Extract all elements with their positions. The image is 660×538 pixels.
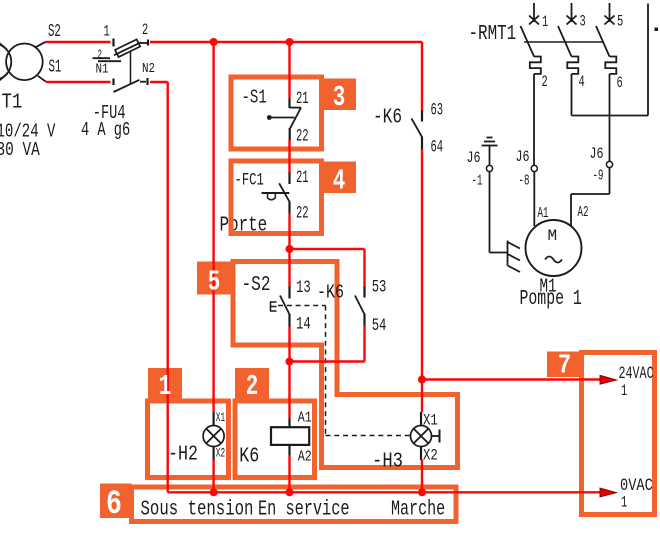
wire J6-1 to chassis bbox=[490, 252, 508, 254]
svg-text:5: 5 bbox=[617, 14, 623, 32]
svg-text:-H3: -H3 bbox=[372, 449, 403, 473]
thermal relay RMT1 pole 3 incoming arrow bbox=[571, 3, 573, 22]
wire contact K6 54 back to node bbox=[363, 326, 365, 362]
switch pole N terminal N1 tick bbox=[112, 79, 114, 86]
svg-text:3: 3 bbox=[580, 14, 586, 32]
svg-text:3: 3 bbox=[333, 81, 346, 114]
lamp H3 circle bbox=[411, 426, 432, 447]
switch pole N blade bbox=[114, 80, 140, 92]
wire RMT1 pole 4 down bbox=[571, 74, 573, 116]
annotation box 5 outline (S2 + H3 zone, L-shaped) bbox=[233, 262, 458, 468]
svg-text:-H2: -H2 bbox=[168, 442, 198, 467]
lamp H2 top tick X1 bbox=[213, 412, 215, 426]
arrow 24VAC into box 7 bbox=[600, 375, 617, 384]
svg-text:4 A g6: 4 A g6 bbox=[81, 120, 130, 142]
svg-text:-S2: -S2 bbox=[242, 272, 271, 297]
contact FC1 roller wedge bbox=[268, 193, 276, 200]
svg-text:Marche: Marche bbox=[391, 497, 445, 521]
wire fuse FU4 output stub bbox=[141, 42, 148, 44]
wire top 24V rail from fuse terminal 2 bbox=[150, 41, 422, 43]
contact S1 terminal 21 tick bbox=[288, 98, 290, 108]
svg-text:14: 14 bbox=[296, 313, 311, 334]
svg-text:2: 2 bbox=[142, 22, 148, 40]
wire J6-9 horizontal to A2 bbox=[571, 193, 610, 195]
tiny clipped mark top right edge bbox=[655, 28, 659, 32]
wire down to motor A2 bbox=[570, 194, 572, 226]
svg-text:6: 6 bbox=[106, 486, 122, 524]
svg-text:Sous tension: Sous tension bbox=[141, 496, 254, 521]
terminal J6-9 circle bbox=[606, 161, 612, 167]
svg-text:2: 2 bbox=[542, 74, 548, 92]
wire from N2 terminal bbox=[150, 81, 168, 83]
svg-text:4: 4 bbox=[579, 74, 585, 92]
fuse FU4 body (rotated rectangle) bbox=[115, 39, 140, 57]
wire T1 secondary stub to S1 bbox=[38, 76, 46, 82]
coil K6 terminal A1 tick bbox=[288, 418, 290, 427]
wire switch pole N output stub bbox=[140, 81, 146, 83]
contact K6 53-54 blade bbox=[355, 296, 365, 316]
wire contact FC1 22 to node and S2 13 bbox=[288, 213, 290, 287]
switch pole N terminal N2 tick bbox=[146, 78, 148, 85]
svg-text:-8: -8 bbox=[519, 172, 530, 189]
contact FC1 terminal 21 tick bbox=[288, 172, 290, 184]
junction node 24VAC takeoff bbox=[418, 376, 426, 384]
svg-text:Pompe 1: Pompe 1 bbox=[520, 287, 582, 311]
contact K6 63 terminal tick bbox=[421, 110, 423, 122]
junction node 0V rail at H2 bbox=[210, 488, 218, 496]
svg-text:-K6: -K6 bbox=[317, 283, 344, 304]
annotation tab 6 bbox=[100, 484, 132, 519]
lamp H3 right side mark bbox=[432, 435, 440, 437]
svg-text:-FC1: -FC1 bbox=[235, 169, 264, 190]
chassis ground symbol at motor bbox=[507, 241, 509, 266]
thermal relay RMT1 pole 3 heater element bbox=[567, 57, 578, 74]
svg-text:X2: X2 bbox=[423, 447, 438, 465]
contact S2 actuator E symbol bbox=[271, 302, 277, 311]
contact S1 pushbutton head bbox=[267, 115, 272, 120]
svg-text:2: 2 bbox=[246, 370, 259, 403]
earth ground symbol above J6-1 bbox=[482, 145, 498, 147]
wire RMT1 pole 6 down to J6-9 bbox=[609, 74, 611, 161]
lamp H3 cross bbox=[414, 429, 429, 444]
wire J6-1 down bbox=[489, 172, 491, 253]
contact S1 terminal 22 tick bbox=[289, 128, 291, 141]
annotation box 2 outline (coil K6 zone) bbox=[235, 401, 315, 478]
wire node down to lamp H3 bbox=[421, 380, 423, 413]
svg-text:X1: X1 bbox=[216, 411, 225, 425]
svg-text:30 VA: 30 VA bbox=[0, 140, 40, 162]
svg-text:1: 1 bbox=[621, 383, 627, 401]
contact K6 54 terminal tick bbox=[363, 314, 365, 326]
svg-text:22: 22 bbox=[296, 204, 309, 223]
svg-text:J6: J6 bbox=[516, 148, 530, 166]
fuse FU4 blade axis line bbox=[114, 42, 141, 55]
svg-text:21: 21 bbox=[296, 90, 309, 109]
svg-text:1: 1 bbox=[104, 24, 110, 42]
svg-text:S1: S1 bbox=[49, 56, 62, 78]
wire lamp H3 to 0V rail bbox=[421, 460, 423, 493]
thermal relay RMT1 pole 1 incoming arrow bbox=[533, 3, 535, 22]
fuse-switch FU4 mechanical link bbox=[130, 51, 132, 84]
svg-text:1: 1 bbox=[621, 495, 627, 513]
svg-text:24VAC: 24VAC bbox=[619, 363, 654, 384]
wire branch node to contact K6 53 bbox=[290, 248, 365, 250]
svg-text:M: M bbox=[548, 227, 558, 245]
contact K6 64 terminal tick bbox=[421, 137, 423, 150]
contact S2 blade bbox=[280, 296, 290, 316]
svg-text:1: 1 bbox=[159, 370, 172, 403]
svg-text:53: 53 bbox=[372, 276, 387, 297]
fuse-switch FU4 terminal 1 tick bbox=[112, 39, 114, 47]
annotation tab 7 bbox=[547, 352, 582, 378]
svg-text:J6: J6 bbox=[590, 145, 604, 163]
thermal relay RMT1 pole 5 incoming arrow bbox=[609, 3, 611, 22]
svg-text:22: 22 bbox=[296, 127, 309, 146]
svg-text:-T1: -T1 bbox=[0, 90, 22, 114]
thermal relay RMT1 pole 1 heater element bbox=[530, 57, 541, 74]
motor M1 circle bbox=[526, 220, 582, 276]
svg-text:En service: En service bbox=[258, 496, 350, 521]
svg-text:J6: J6 bbox=[467, 149, 481, 167]
contact S1 blade bbox=[290, 108, 301, 129]
svg-text:5: 5 bbox=[208, 265, 221, 298]
wire pole 4 horizontal to right edge bbox=[572, 115, 649, 117]
coil K6 rectangle bbox=[271, 427, 309, 445]
mechanical link dashed S2 to H3 bbox=[278, 305, 326, 307]
wire T1 primary stub lower-left bbox=[0, 74, 7, 83]
svg-text:N1: N1 bbox=[96, 61, 109, 77]
contact FC1 terminal 22 tick bbox=[288, 202, 290, 214]
wire 0V rail bottom bbox=[168, 491, 601, 493]
junction node top rail at H2 branch bbox=[210, 38, 218, 46]
terminal J6-8 circle bbox=[531, 165, 537, 171]
wire J6-8 down to motor A1 bbox=[533, 172, 535, 226]
fuse-switch FU4 terminal 2 tick bbox=[147, 40, 149, 46]
svg-text:7: 7 bbox=[558, 351, 571, 382]
svg-text:A2: A2 bbox=[298, 449, 312, 466]
lamp H3 top tick X1 bbox=[420, 412, 422, 426]
svg-text:13: 13 bbox=[296, 277, 311, 298]
svg-text:A2: A2 bbox=[578, 204, 589, 221]
wire lamp H2 to 0V rail bbox=[212, 460, 214, 493]
junction node S2-coil with K6 54 branch bbox=[286, 358, 294, 366]
wire T1 primary stub upper-left bbox=[0, 41, 7, 49]
wire J6-9 down bbox=[609, 168, 611, 194]
terminal J6-1 circle bbox=[486, 165, 492, 171]
svg-text:N2: N2 bbox=[142, 61, 155, 77]
wire from contact K6 64 down to node bbox=[421, 149, 423, 380]
wire T1 secondary stub to S2 bbox=[36, 42, 46, 47]
svg-text:-RMT1: -RMT1 bbox=[469, 21, 517, 46]
contact S2 terminal 14 tick bbox=[288, 314, 290, 327]
svg-text:A1: A1 bbox=[298, 410, 312, 427]
annotation tab 3 bbox=[322, 79, 356, 111]
lamp H2 bottom tick X2 bbox=[213, 446, 215, 460]
thermal relay RMT1 pole 1 blade bbox=[521, 26, 535, 57]
wire N2 vertical down to 0V rail bbox=[166, 82, 168, 492]
annotation box 3 outline (switch S1 zone) bbox=[231, 77, 322, 149]
overlapped label mark line 1 near N1 bbox=[93, 57, 111, 59]
lamp H2 circle bbox=[203, 426, 224, 447]
contact FC1 blade bbox=[279, 183, 290, 202]
svg-text:63: 63 bbox=[431, 101, 444, 120]
wire RMT1 pole 2 down to J6-8 bbox=[533, 74, 535, 165]
svg-text:1: 1 bbox=[542, 14, 548, 32]
thermal relay RMT1 pole 3 blade bbox=[558, 26, 572, 57]
svg-text:-1: -1 bbox=[472, 172, 483, 189]
contact S2 terminal 13 tick bbox=[288, 286, 290, 299]
thermal relay RMT1 pole 5 heater element bbox=[605, 57, 616, 74]
svg-text:-K6: -K6 bbox=[373, 104, 402, 129]
transformer T1 primary winding circle (clipped at left edge) bbox=[0, 44, 11, 81]
junction node 0V rail at H3 bbox=[418, 488, 426, 496]
wire S1 from transformer to switch N1 bbox=[46, 81, 111, 83]
wire contact S2 14 down to coil K6 A1 bbox=[288, 327, 290, 419]
svg-text:6: 6 bbox=[617, 75, 623, 93]
contact S1 hook bbox=[290, 107, 302, 109]
annotation box 4 outline (limit switch FC1 zone) bbox=[231, 161, 322, 234]
svg-text:A1: A1 bbox=[538, 205, 549, 222]
wire right edge vertical up bbox=[647, 4, 649, 116]
junction node FC1-S2 with K6 53 branch bbox=[286, 245, 294, 253]
annotation tab 5 bbox=[197, 262, 231, 295]
wire rail to lamp H2 bbox=[212, 42, 214, 412]
svg-text:0VAC: 0VAC bbox=[620, 475, 653, 495]
svg-text:21: 21 bbox=[296, 169, 309, 188]
svg-text:K6: K6 bbox=[239, 444, 259, 469]
motor M1 tilde bbox=[545, 257, 562, 263]
wire 24VAC feed to box 7 bbox=[422, 378, 601, 380]
wire S2 from transformer to fuse terminal 1 bbox=[46, 41, 111, 43]
contact FC1 actuator rod bbox=[262, 192, 290, 194]
lamp H2 cross bbox=[206, 429, 221, 444]
annotation box 6 outline (indicator text zone) bbox=[132, 487, 457, 522]
contact K6 53 terminal tick bbox=[363, 286, 365, 298]
contact K6 63-64 blade bbox=[412, 119, 423, 138]
annotation box 1 outline (lamp H2 zone) bbox=[148, 401, 229, 478]
annotation box 7 outline (24VAC supply zone) bbox=[582, 353, 655, 515]
svg-text:-9: -9 bbox=[593, 167, 604, 184]
annotation tab 1 bbox=[148, 368, 182, 400]
svg-text:X1: X1 bbox=[423, 412, 438, 430]
wire down to contact K6 63 bbox=[421, 42, 423, 111]
transformer T1 secondary winding circle bbox=[6, 44, 43, 81]
svg-text:4: 4 bbox=[333, 164, 346, 197]
junction node top rail at S1 branch bbox=[286, 38, 294, 46]
svg-text:64: 64 bbox=[431, 138, 444, 157]
svg-text:S2: S2 bbox=[48, 20, 61, 42]
svg-text:X2: X2 bbox=[216, 447, 225, 461]
annotation tab 2 bbox=[235, 368, 269, 400]
contact S1 pushbutton actuator rod bbox=[271, 117, 295, 119]
arrow 0VAC into box 7 bbox=[600, 488, 617, 497]
lamp H3 bottom tick X2 bbox=[420, 446, 422, 460]
thermal relay RMT1 pole 5 blade bbox=[596, 26, 610, 57]
coil K6 terminal A2 tick bbox=[288, 445, 290, 455]
svg-text:54: 54 bbox=[372, 315, 387, 336]
overlapped label mark line 2 near N1 bbox=[98, 60, 121, 62]
wire rail to contact S1 21 bbox=[288, 42, 290, 99]
thermal relay RMT1 mechanical link bar bbox=[524, 41, 604, 43]
wire contact S1 22 to FC1 21 bbox=[288, 140, 290, 173]
svg-text:-S1: -S1 bbox=[242, 88, 267, 110]
annotation tab 4 bbox=[322, 162, 356, 194]
wire coil K6 A2 to 0V rail bbox=[288, 455, 290, 492]
junction node 0V rail at coil bbox=[286, 488, 294, 496]
